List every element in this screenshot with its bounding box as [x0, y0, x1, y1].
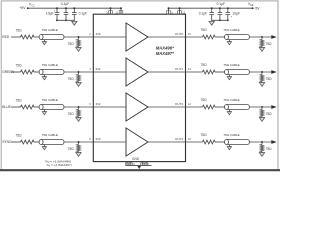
pin 13 number	[182, 10, 185, 14]
svg-text:75Ω: 75Ω	[201, 98, 208, 102]
ground (output termination OUT3)	[259, 153, 264, 157]
svg-text:75Ω: 75Ω	[68, 112, 75, 116]
svg-text:75Ω: 75Ω	[68, 147, 75, 151]
pin 11 stub (VCC)	[119, 7, 123, 14]
ground (input termination RED)	[76, 48, 81, 52]
ground (IC GND)	[137, 166, 141, 169]
pin 12 number	[188, 102, 192, 106]
wire SYNC to R series	[11, 141, 21, 143]
svg-text:13: 13	[182, 10, 185, 14]
svg-text:15: 15	[188, 32, 192, 36]
svg-text:0.1µF: 0.1µF	[217, 2, 226, 6]
svg-text:AV = +2 (MAX497): AV = +2 (MAX497)	[47, 163, 72, 168]
wire VEE rail	[169, 7, 253, 9]
svg-text:10µF: 10µF	[232, 12, 240, 16]
wire output R to cable OUT3	[215, 141, 225, 143]
pin label IN2	[96, 102, 101, 106]
ground (input termination BLUE)	[76, 118, 81, 122]
75&#937; coax cable output OUT1	[223, 63, 249, 74]
wire IC input to amp A2	[93, 106, 126, 108]
pins 1,9,7,16 stubs (GND)	[125, 162, 147, 166]
node junction input BLUE	[78, 106, 80, 108]
pin 3 stub (VCC)	[109, 7, 113, 14]
svg-text:IN2: IN2	[96, 102, 101, 106]
node GREEN input	[2, 70, 14, 74]
pin 9 number	[133, 162, 135, 166]
svg-text:BLUE: BLUE	[2, 105, 11, 109]
wire IC pin 10 to R series	[186, 141, 203, 143]
note gain MAX496	[45, 159, 71, 164]
svg-text:SYNC: SYNC	[2, 140, 12, 144]
svg-text:75Ω: 75Ω	[68, 77, 75, 81]
svg-text:75Ω: 75Ω	[201, 28, 208, 32]
svg-text:MAX497*: MAX497*	[156, 51, 174, 56]
wire IC pin 14 to R series	[186, 71, 203, 73]
junction dots VCC caps	[56, 7, 75, 21]
label VCC	[29, 2, 35, 7]
ground (input cable shield BLUE)	[42, 110, 46, 115]
wire output R to cable OUT1	[215, 71, 225, 73]
svg-text:75Ω: 75Ω	[16, 98, 23, 102]
svg-text:OUT1: OUT1	[175, 67, 184, 71]
node junction input RED	[78, 36, 80, 38]
wire IC pin 15 to R series	[186, 36, 203, 38]
ground (output termination OUT1)	[259, 83, 264, 87]
svg-text:EE: EE	[250, 5, 254, 7]
amp buffer A1	[126, 58, 148, 86]
svg-text:75Ω: 75Ω	[201, 133, 208, 137]
ground (output termination OUT2)	[259, 118, 264, 122]
amp buffer A0	[126, 23, 148, 51]
wire output R to cable OUT0	[215, 36, 225, 38]
svg-text:OUT0: OUT0	[175, 32, 184, 36]
ground (output cable shield OUT0)	[227, 40, 231, 45]
wire RED cable to IC pin 2	[64, 36, 93, 38]
svg-text:75Ω CABLE: 75Ω CABLE	[42, 98, 58, 102]
wire GREEN R to cable	[34, 71, 39, 73]
capacitor 0.1uF (VCC, right)	[72, 8, 87, 20]
junction dots VEE caps	[211, 7, 229, 21]
svg-text:10: 10	[188, 137, 192, 141]
pin label IN1	[96, 67, 101, 71]
svg-text:14: 14	[188, 67, 192, 71]
label VEE	[248, 2, 254, 7]
svg-text:75Ω: 75Ω	[266, 77, 273, 81]
resistor 75&#937; series input GREEN	[16, 63, 34, 74]
node junction input SYNC	[78, 141, 80, 143]
resistor 75&#937; termination input SYNC	[68, 142, 81, 153]
pin label IN0	[96, 32, 101, 36]
label MAX496* MAX497*	[156, 46, 174, 56]
wire output R to cable OUT2	[215, 106, 225, 108]
ground (input termination GREEN)	[76, 83, 81, 87]
svg-text:75Ω: 75Ω	[16, 28, 23, 32]
capacitor 0.1uF (VEE, middle)	[217, 2, 226, 21]
svg-text:75Ω: 75Ω	[16, 133, 23, 137]
bottom rule	[0, 169, 280, 171]
pin label OUT3	[175, 137, 184, 141]
node junction output OUT3	[261, 141, 263, 143]
wire cable to output node OUT2	[249, 106, 271, 108]
ground (output termination OUT0)	[259, 48, 264, 52]
output arrow OUT0	[271, 35, 276, 39]
wire GND bus	[126, 164, 152, 166]
pin 10 number	[188, 137, 192, 141]
capacitor 10uF (VEE)	[226, 8, 240, 20]
resistor 75&#937; termination input BLUE	[68, 107, 81, 118]
wire GREEN cable to IC pin 4	[64, 71, 93, 73]
svg-text:75Ω: 75Ω	[266, 147, 273, 151]
svg-text:75Ω CABLE: 75Ω CABLE	[42, 63, 58, 67]
svg-text:+5V: +5V	[19, 6, 26, 10]
svg-text:-5V: -5V	[254, 6, 260, 10]
wire IC input to amp A0	[93, 36, 126, 38]
wire BLUE to R series	[11, 106, 21, 108]
node junction input GREEN	[78, 71, 80, 73]
ground (output cable shield OUT3)	[227, 145, 231, 150]
svg-text:75Ω CABLE: 75Ω CABLE	[223, 98, 239, 102]
op-amp U1 MAX496/MAX497 package outline	[93, 14, 185, 161]
ground (input cable shield GREEN)	[42, 75, 46, 80]
resistor 75&#937; series input RED	[16, 28, 34, 38]
wire BLUE cable to IC pin 6	[64, 106, 93, 108]
75&#937; coax cable output OUT3	[223, 133, 249, 144]
node +5V	[19, 6, 28, 10]
wire cable to output node OUT3	[249, 141, 271, 143]
node junction output OUT2	[261, 106, 263, 108]
ground (output cable shield OUT1)	[227, 75, 231, 80]
svg-text:OUT2: OUT2	[175, 102, 184, 106]
svg-text:IN1: IN1	[96, 67, 101, 71]
wire SYNC R to cable	[34, 141, 39, 143]
pin 15 number	[188, 32, 192, 36]
svg-text:IN3: IN3	[96, 137, 101, 141]
svg-text:OUT3: OUT3	[175, 137, 184, 141]
resistor 75&#937; series output OUT1	[201, 63, 215, 74]
pin 6 number	[89, 102, 91, 106]
svg-text:12: 12	[188, 102, 192, 106]
wire cable to output node OUT0	[249, 36, 271, 38]
pin label OUT1	[175, 67, 184, 71]
75&#937; coax cable input SYNC	[39, 133, 64, 144]
svg-text:75Ω CABLE: 75Ω CABLE	[223, 133, 239, 137]
resistor 75&#937; series output OUT2	[201, 98, 215, 109]
wire BLUE R to cable	[34, 106, 39, 108]
pin 3 number	[106, 10, 108, 14]
resistor 75&#937; series output OUT3	[201, 133, 215, 144]
svg-text:0.1µF: 0.1µF	[61, 2, 70, 6]
amp buffer A3	[126, 128, 148, 156]
svg-text:75Ω CABLE: 75Ω CABLE	[42, 28, 58, 32]
pin label OUT0	[175, 32, 184, 36]
75&#937; coax cable input GREEN	[39, 63, 64, 74]
75&#937; coax cable output OUT0	[223, 28, 249, 39]
svg-text:75Ω: 75Ω	[16, 63, 23, 67]
node junction output OUT0	[261, 36, 263, 38]
75&#937; coax cable input BLUE	[39, 98, 64, 109]
resistor 75&#937; termination output OUT2	[260, 107, 272, 118]
svg-text:10µF: 10µF	[46, 12, 54, 16]
wire VEE cap bus	[212, 19, 228, 21]
ground (input cable shield RED)	[42, 40, 46, 45]
wire GREEN to R series	[11, 71, 21, 73]
pin label IN3	[96, 137, 101, 141]
pin 2 number	[89, 32, 91, 36]
wire IC pin 12 to R series	[186, 106, 203, 108]
ground (input cable shield SYNC)	[42, 145, 46, 150]
output arrow OUT1	[271, 70, 276, 74]
pin label GND	[132, 157, 140, 161]
wire SYNC cable to IC pin 8	[64, 141, 93, 143]
svg-text:0.1µF: 0.1µF	[79, 12, 88, 16]
wire amp A0 to IC output	[148, 36, 186, 38]
svg-text:75Ω: 75Ω	[266, 42, 273, 46]
wire amp A3 to IC output	[148, 141, 186, 143]
svg-text:GND: GND	[132, 157, 140, 161]
svg-text:75Ω: 75Ω	[266, 112, 273, 116]
svg-text:CC: CC	[31, 5, 35, 7]
resistor 75&#937; series input BLUE	[16, 98, 34, 109]
output arrow OUT2	[271, 105, 276, 109]
pin 5 stub (VEE)	[167, 7, 171, 14]
amp buffer A2	[126, 93, 148, 121]
resistor 75&#937; termination input GREEN	[68, 72, 81, 83]
pin 14 number	[188, 67, 192, 71]
svg-text:75Ω: 75Ω	[201, 63, 208, 67]
wire RED to R series	[11, 36, 21, 38]
ground (VCC bypass)	[72, 20, 77, 25]
border frame	[1, 1, 278, 170]
node BLUE input	[2, 105, 11, 109]
svg-text:75Ω CABLE: 75Ω CABLE	[223, 28, 239, 32]
svg-text:0.1µF: 0.1µF	[199, 12, 208, 16]
output arrow OUT3	[271, 140, 276, 144]
svg-text:75Ω CABLE: 75Ω CABLE	[42, 133, 58, 137]
node junction output OUT1	[261, 71, 263, 73]
ground (output cable shield OUT2)	[227, 110, 231, 115]
wire amp A1 to IC output	[148, 71, 186, 73]
wire cable to output node OUT1	[249, 71, 271, 73]
resistor 75&#937; termination output OUT1	[260, 72, 272, 83]
resistor 75&#937; termination output OUT3	[260, 142, 272, 153]
pin 4 number	[89, 67, 91, 71]
svg-text:MAX496*: MAX496*	[156, 46, 174, 51]
wire IC input to amp A3	[93, 141, 126, 143]
node -5V	[252, 6, 261, 10]
ground (VEE bypass)	[209, 20, 214, 25]
capacitor 0.1uF (VEE, left)	[199, 8, 214, 20]
node SYNC input	[2, 140, 12, 144]
pin 13 stub (VEE)	[178, 7, 182, 14]
wire VCC cap bus	[57, 19, 74, 21]
resistor 75&#937; series input SYNC	[16, 133, 34, 144]
pin 8 number	[89, 137, 91, 141]
pin label OUT2	[175, 102, 184, 106]
polarity + (10uF VEE)	[231, 16, 233, 19]
resistor 75&#937; termination input RED	[68, 37, 81, 48]
svg-text:IN0: IN0	[96, 32, 101, 36]
note gain MAX497	[47, 163, 72, 168]
svg-text:75Ω: 75Ω	[68, 42, 75, 46]
wire VCC rail	[28, 7, 121, 9]
wire IC input to amp A1	[93, 71, 126, 73]
capacitor 0.1uF (VCC, middle)	[61, 2, 70, 21]
node RED input	[2, 35, 10, 39]
pin 5 number	[171, 10, 173, 14]
pin 11 number	[115, 10, 118, 14]
svg-text:RED: RED	[2, 35, 10, 39]
75&#937; coax cable input RED	[39, 28, 64, 39]
polarity + (10uF VCC)	[53, 9, 55, 12]
resistor 75&#937; series output OUT0	[201, 28, 215, 39]
wire amp A2 to IC output	[148, 106, 186, 108]
wire RED R to cable	[34, 36, 39, 38]
resistor 75&#937; termination output OUT0	[260, 37, 272, 48]
capacitor 10uF (VCC)	[46, 8, 59, 20]
75&#937; coax cable output OUT2	[223, 98, 249, 109]
svg-text:75Ω CABLE: 75Ω CABLE	[223, 63, 239, 67]
pin 7 number	[148, 162, 150, 166]
ground (input termination SYNC)	[76, 153, 81, 157]
